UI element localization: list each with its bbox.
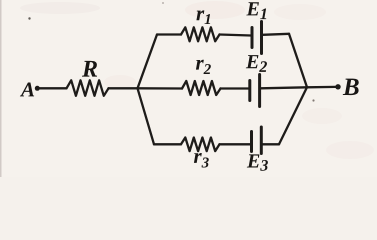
wire E1 to top right corner (263, 34, 289, 35)
label E2 (246, 55, 267, 72)
wire A to R (40, 87, 67, 89)
cell E3 long plate (260, 127, 263, 154)
wire top branch left (157, 33, 181, 35)
wire r3 to E3 (220, 143, 251, 145)
resistor R (67, 80, 109, 96)
label E3 (247, 154, 268, 170)
resistor r1 (181, 27, 220, 41)
wire R to left node (109, 87, 138, 89)
label R (82, 61, 97, 77)
wire bottom branch left (154, 143, 181, 145)
wire left node up-diagonal (138, 35, 158, 89)
node A terminal dot (35, 86, 40, 91)
wire r2 to E2 (221, 87, 249, 89)
node B terminal dot (335, 84, 340, 89)
cell E3 short plate (250, 132, 253, 152)
wire bottom right diagonal up to node (279, 87, 307, 144)
resistor r3 (181, 138, 220, 152)
label A (20, 83, 34, 97)
wire middle branch left (138, 87, 183, 89)
label E1 (246, 2, 266, 19)
label r1 (196, 10, 210, 24)
cell E1 short plate (251, 28, 254, 48)
wire r1 to E1 (220, 35, 251, 36)
cell E2 long plate (258, 75, 261, 107)
label B (343, 79, 359, 95)
paper background (0, 0, 377, 177)
wire right node to B (307, 86, 336, 89)
cell E1 long plate (260, 22, 263, 54)
wire E3 to bottom right corner (263, 143, 280, 145)
resistor r2 (182, 81, 221, 95)
wire left node down-diagonal (138, 88, 155, 144)
cell E2 short plate (248, 81, 251, 101)
wire top right diagonal to node B side (289, 34, 307, 88)
label r3 (194, 153, 209, 168)
wire E2 to right node (261, 87, 307, 88)
label r2 (196, 60, 211, 74)
